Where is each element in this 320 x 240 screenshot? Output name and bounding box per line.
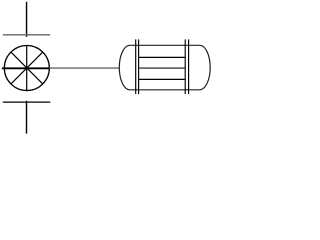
heat exchanger E1 right tube sheet line 1 (184, 39, 186, 94)
fan B1 vertical spoke (26, 46, 28, 92)
heat exchanger E1 left tube sheet line 2 (138, 39, 140, 94)
heat exchanger E1 tube 1 (139, 56, 186, 58)
node bottom break line (3, 101, 51, 103)
wire bottom duct stub (26, 101, 28, 134)
heat exchanger E1 shell (119, 45, 210, 90)
node top break line (3, 34, 50, 36)
heat exchanger E1 right tube sheet line 2 (188, 39, 190, 94)
heat exchanger E1 left tube sheet line 1 (135, 39, 137, 94)
heat exchanger E1 tube 3 (139, 78, 186, 80)
fan B1 diagonal spoke SW-NE (11, 52, 43, 84)
wire top duct stub (26, 2, 28, 37)
fan B1 horizontal spoke (2, 67, 49, 69)
heat exchanger E1 tube 2 (139, 67, 186, 69)
fan B1 circle (4, 46, 49, 91)
wire fan to exchanger (49, 67, 119, 69)
fan B1 diagonal spoke NW-SE (11, 52, 43, 84)
